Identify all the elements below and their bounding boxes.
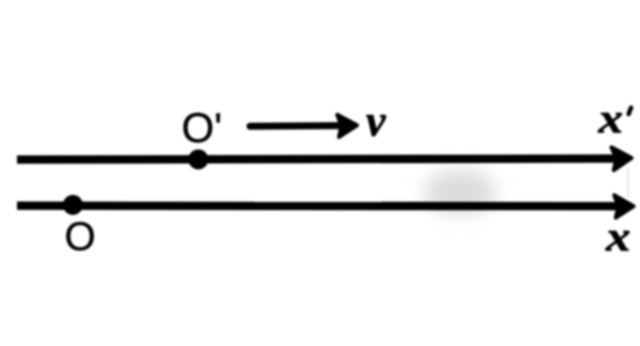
svg-text:x: x: [597, 97, 623, 143]
svg-text:v: v: [366, 97, 386, 146]
background smudge artifact: [424, 170, 496, 214]
x axis arrowhead: [614, 195, 633, 217]
faint vertical line between arrow tips: [627, 168, 629, 198]
x-prime axis arrowhead: [612, 147, 632, 170]
origin dot O-prime: [188, 149, 208, 169]
origin dot O: [63, 195, 83, 215]
x-prime axis line (upper): [17, 159, 616, 160]
velocity arrow: [250, 122, 340, 130]
x axis line (lower): [17, 201, 618, 210]
velocity arrowhead: [337, 115, 357, 137]
svg-text:O': O': [182, 104, 223, 151]
svg-text:O: O: [65, 215, 96, 259]
prime mark of x-prime: [629, 108, 632, 115]
svg-text:x: x: [605, 215, 631, 261]
